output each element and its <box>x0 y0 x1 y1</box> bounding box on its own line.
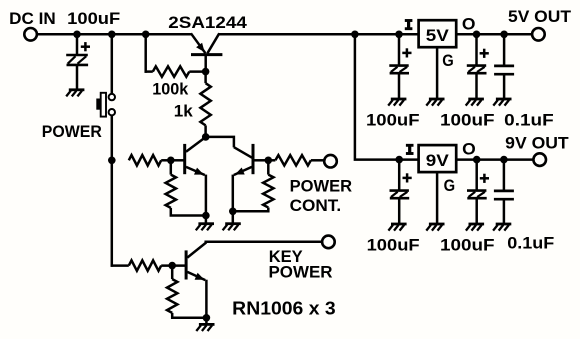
transistor Q2 base bar <box>252 144 255 174</box>
ground of U2 <box>426 224 444 231</box>
capacitor C3 lead <box>475 34 478 65</box>
svg-text:1k: 1k <box>174 103 194 121</box>
label 1k <box>174 103 194 121</box>
terminal KEY POWER <box>322 236 335 249</box>
label 5V (U1) <box>426 27 449 45</box>
terminal POWER CONT. <box>324 155 337 168</box>
label I (5V) <box>405 20 413 28</box>
wire collector node to Q2 corner <box>206 137 234 148</box>
label 100k <box>152 80 189 98</box>
wire U1 output <box>456 33 532 36</box>
capacitor C4 0.1uF <box>494 34 514 99</box>
svg-text:O: O <box>462 140 476 158</box>
label 100uF (input cap value) <box>67 10 120 28</box>
node Q3 base junction <box>168 262 176 270</box>
capacitor C5 100uF <box>390 191 410 199</box>
label 9V (U2) <box>426 152 449 170</box>
node Q2 emitter/R5 junction <box>229 208 237 216</box>
svg-text:100uF: 100uF <box>440 112 495 130</box>
transistor Q2 emitter <box>234 167 252 175</box>
transistor Q4 collector <box>207 33 219 53</box>
svg-text:2SA1244: 2SA1244 <box>168 14 247 32</box>
svg-text:100k: 100k <box>152 80 189 98</box>
capacitor C6 plus sign <box>480 174 489 183</box>
svg-text:9V OUT: 9V OUT <box>505 134 569 152</box>
ground of C4 <box>493 99 511 106</box>
node junction top rail / C1 <box>73 31 81 39</box>
wire R2 to collector node <box>204 125 207 136</box>
transistor Q1 emitter <box>186 167 205 175</box>
label O (5V) <box>462 16 476 34</box>
wire C3 to ground <box>475 73 478 99</box>
wire Q1 node to ground <box>205 216 208 224</box>
svg-text:RN1006 x 3: RN1006 x 3 <box>232 298 336 318</box>
ground of C2 <box>388 99 406 106</box>
transistor Q2 emitter arrow <box>235 168 245 175</box>
transistor Q3 collector <box>187 242 322 258</box>
wire switch down the left bus <box>111 115 129 267</box>
resistor R7 (Q3 base) <box>129 260 161 270</box>
node junction 5V 0.1uF cap <box>500 31 508 39</box>
wire R1 to Q4 base node <box>189 70 205 73</box>
resistor R4 (Q1 pull-down) lead <box>170 160 173 174</box>
wire R3 to Q1 base node <box>161 159 171 162</box>
svg-text:100uF: 100uF <box>367 236 420 254</box>
label 2SA1244 <box>168 14 247 32</box>
wire R7 to Q3 base <box>161 264 186 267</box>
label 0.1uF (C7) <box>507 235 554 253</box>
label 100uF (C3) <box>440 112 495 130</box>
wire Q3 emitter to ground node <box>205 280 208 318</box>
capacitor C3 plus sign <box>480 49 489 58</box>
node junction 9V output cap <box>473 156 481 164</box>
transistor Q1 emitter arrow <box>194 168 204 175</box>
resistor R4 (Q1 pull-down) <box>166 175 176 208</box>
wire Q2 emitter to ground node <box>232 175 235 212</box>
svg-text:100uF: 100uF <box>366 111 420 129</box>
ground of C7 <box>493 224 511 231</box>
capacitor C1 100uF plus sign <box>81 42 90 51</box>
capacitor C5 lead <box>398 160 401 191</box>
svg-text:O: O <box>462 16 476 34</box>
wire Q2 base lead <box>253 159 268 162</box>
node Q4 base junction <box>202 68 210 76</box>
regulator U1 5V box <box>419 20 457 47</box>
label 100uF (C6) <box>440 236 495 254</box>
node junction 5V output cap <box>473 31 481 39</box>
label CONT. <box>290 197 342 215</box>
wire R5 to Q2 emitter node <box>233 208 268 212</box>
svg-text:G: G <box>442 52 454 70</box>
ground of C5 <box>388 224 406 231</box>
node collector node Q1/Q2 <box>202 133 210 141</box>
transistor Q1 base bar <box>183 144 186 174</box>
capacitor C7 0.1uF <box>494 160 514 224</box>
ground of Q2 <box>223 224 241 231</box>
transistor Q4 base lead <box>204 56 207 72</box>
regulator U2 9V box <box>419 145 457 172</box>
wire R1 drop <box>145 34 153 73</box>
wire Q2 node to ground <box>232 211 235 223</box>
capacitor C1 100uF <box>66 55 88 65</box>
wire C1 to ground <box>76 65 79 90</box>
transistor Q4 emitter arrow (PNP) <box>196 43 205 52</box>
wire top rail from DC IN to Q4 emitter <box>37 33 191 36</box>
svg-text:0.1uF: 0.1uF <box>504 112 554 130</box>
wire C2 to ground <box>398 73 401 99</box>
wire U2 ground lead <box>436 172 439 224</box>
node junction 5V input cap <box>395 31 403 39</box>
ground of C1 <box>66 90 84 97</box>
transistor Q3 base bar <box>185 250 188 279</box>
ground of U1 <box>426 99 444 106</box>
label 100uF (C5) <box>367 236 420 254</box>
label POWER (cont) <box>290 178 353 196</box>
capacitor C5 plus sign <box>403 173 412 182</box>
node junction 9V 0.1uF cap <box>500 156 508 164</box>
ground of Q1 <box>196 224 214 231</box>
transistor Q1 collector <box>186 137 205 152</box>
svg-text:5V OUT: 5V OUT <box>508 8 571 26</box>
label POWER (key) <box>269 263 333 281</box>
resistor R5 (Q2 pull-down) lead <box>267 160 270 174</box>
node junction top rail / 9V branch <box>351 31 359 39</box>
label 5V OUT <box>508 8 571 26</box>
label DC IN <box>9 10 55 28</box>
capacitor C1 100uF lead <box>76 34 79 55</box>
wire U1 ground lead <box>436 47 439 99</box>
transistor Q3 emitter arrow <box>195 273 205 280</box>
resistor R8 (Q3 pull-down) lead <box>171 266 174 280</box>
capacitor C2 plus sign <box>402 48 411 57</box>
node Q2 base junction <box>265 157 273 165</box>
wire R6 leads <box>268 159 324 162</box>
label RN1006 x 3 <box>232 298 336 318</box>
capacitor C2 100uF <box>389 66 409 74</box>
terminal J1 DC IN <box>24 28 37 41</box>
svg-text:POWER: POWER <box>42 123 102 141</box>
wire collector rail to 5V regulator <box>219 33 418 36</box>
node junction 9V input cap <box>395 156 403 164</box>
capacitor C3 100uF <box>467 66 487 74</box>
resistor R2 1k lead <box>204 72 207 84</box>
svg-text:5V: 5V <box>426 27 449 45</box>
wire C5 to ground <box>398 198 401 224</box>
transistor Q2 collector <box>234 147 252 158</box>
node Q3 emitter/R8 junction <box>203 314 211 322</box>
capacitor C2 lead <box>398 34 401 65</box>
label 100uF (C2) <box>366 111 420 129</box>
wire Q1 base lead <box>171 159 185 162</box>
svg-text:G: G <box>444 177 456 195</box>
node junction top rail / switch <box>108 31 116 39</box>
resistor R8 (Q3 pull-down) <box>167 279 177 313</box>
node junction left bus / R3 <box>108 157 116 165</box>
capacitor C6 lead <box>475 160 478 191</box>
wire R8 to Q3 emitter node <box>172 313 206 318</box>
wire R4 to Q1 emitter node <box>171 208 206 216</box>
svg-text:100uF: 100uF <box>440 236 495 254</box>
label I (9V) <box>406 145 414 153</box>
label G (9V) <box>444 177 456 195</box>
wire Q3 node to ground <box>205 318 208 325</box>
wire C6 to ground <box>475 198 478 224</box>
svg-text:DC IN: DC IN <box>9 10 55 28</box>
label 9V OUT <box>505 134 569 152</box>
label O (9V) <box>462 140 476 158</box>
svg-text:POWER: POWER <box>269 263 333 281</box>
transistor Q4 base bar <box>191 53 222 56</box>
transistor Q4 2SA1244 emitter <box>191 33 206 53</box>
svg-text:CONT.: CONT. <box>290 197 342 215</box>
resistor R2 1k <box>200 83 210 125</box>
label POWER (switch) <box>42 123 102 141</box>
wire top rail to switch <box>111 34 114 94</box>
svg-text:100uF: 100uF <box>67 10 120 28</box>
wire Q1 emitter to ground node <box>205 175 208 216</box>
svg-text:0.1uF: 0.1uF <box>507 235 554 253</box>
label 0.1uF (C4) <box>504 112 554 130</box>
ground of C6 <box>466 224 484 231</box>
ground of Q3 <box>196 324 214 331</box>
node Q1 base junction <box>167 157 175 165</box>
terminal 5V OUT <box>532 28 545 41</box>
node junction top rail / R1 <box>142 31 150 39</box>
resistor R1 100k <box>153 66 190 76</box>
transistor Q3 emitter <box>187 272 205 280</box>
svg-text:9V: 9V <box>426 152 449 170</box>
resistor R5 (Q2 pull-down) <box>263 175 273 208</box>
terminal 9V OUT <box>533 153 546 166</box>
label G (5V) <box>442 52 454 70</box>
resistor R6 (POWER CONT.) <box>275 155 311 165</box>
label KEY <box>269 248 303 266</box>
wire U2 output <box>456 158 533 161</box>
svg-text:POWER: POWER <box>290 178 353 196</box>
capacitor C6 100uF <box>467 191 487 199</box>
wire 9V branch <box>355 34 418 159</box>
resistor R3 (Q1 base) <box>129 155 161 165</box>
node Q1 emitter/R4 junction <box>202 212 210 220</box>
switch SW1 POWER pushbutton <box>96 93 115 117</box>
ground of C3 <box>466 99 484 106</box>
